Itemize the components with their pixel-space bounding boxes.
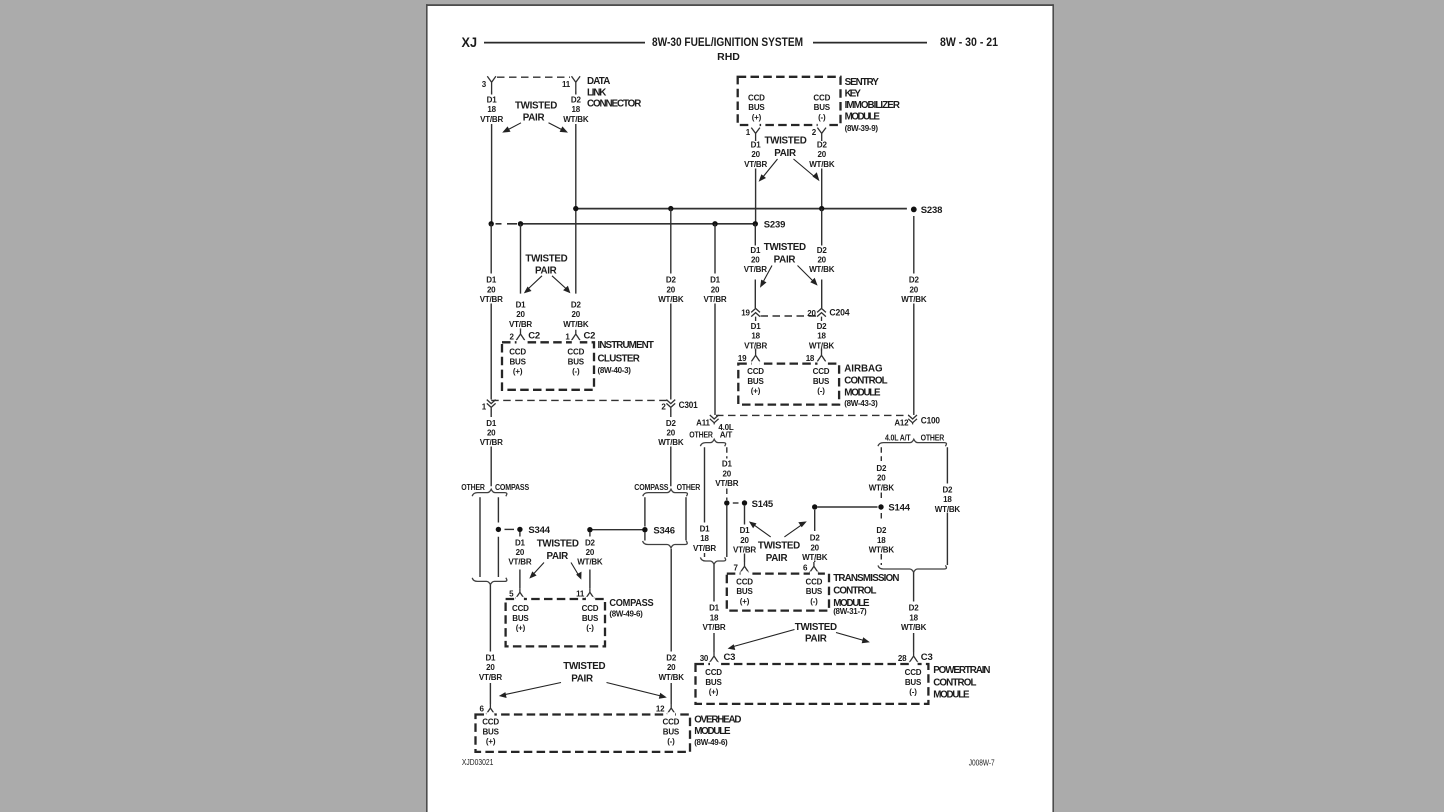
twisted pair arrow left (DLC) [507, 123, 521, 130]
junction dot D1/DLC [489, 221, 494, 226]
twisted pair arrow left (C3) [734, 630, 795, 647]
wire D1 20 VT/BR to C2 pin 2 [520, 224, 522, 330]
twisted pair arrow left (TCM) up [754, 525, 771, 537]
junction dot D2/SKIM branch [819, 206, 824, 211]
wire D2 18 WT/BK from merge to C3 pin 28 [913, 573, 915, 653]
svg-text:1: 1 [565, 332, 570, 341]
svg-text:2: 2 [510, 332, 515, 341]
C204 pin 20 chevron [817, 308, 826, 321]
wire D2 18 WT/BK from C204-20 to airbag pin 18 [821, 349, 823, 352]
C3 pin 28 connector [909, 652, 917, 662]
twisted pair arrow right (DLC) [549, 123, 564, 130]
svg-text:18: 18 [806, 354, 815, 363]
dash gaps at pin entries [517, 340, 580, 344]
svg-text:COMPASS: COMPASS [634, 483, 669, 492]
junction dot D1/C2 branch [518, 221, 523, 226]
splice S344 dot on branch [496, 527, 501, 532]
svg-text:XJD03021: XJD03021 [462, 758, 494, 767]
bus wire lower (D1) [496, 223, 756, 225]
module box: instrument cluster [502, 342, 594, 390]
label D1 20 VT/BR (above C301-1) [478, 274, 505, 305]
module box: compass [506, 599, 605, 646]
split brace under A12 [878, 439, 946, 446]
svg-text:5: 5 [509, 589, 514, 598]
wire D1 20 VT/BR from S344 to compass pin 5 [519, 532, 521, 588]
svg-text:(8W-49-6): (8W-49-6) [694, 738, 728, 747]
junction dot D2/C301 branch [668, 206, 673, 211]
module box: transmission control module [727, 574, 829, 611]
svg-text:OTHER: OTHER [689, 431, 713, 440]
splice S346 dot right [642, 527, 647, 532]
svg-text:12: 12 [656, 705, 665, 714]
svg-text:7: 7 [733, 563, 738, 572]
splice S344 dot [517, 527, 522, 532]
svg-text:19: 19 [738, 354, 747, 363]
svg-text:(8W-43-3): (8W-43-3) [844, 399, 878, 408]
overhead pin 12 connector [667, 704, 675, 714]
svg-text:A11: A11 [696, 418, 710, 427]
svg-text:2: 2 [661, 402, 666, 411]
page border top [426, 4, 1053, 6]
compass pin 11 connector [586, 588, 594, 598]
svg-text:(8W-31-7): (8W-31-7) [833, 607, 867, 616]
wire D1 20 VT/BR from merge to overhead pin 6 [489, 585, 491, 704]
twisted pair arrow right (S239) [798, 266, 814, 282]
svg-text:C301: C301 [679, 400, 699, 411]
svg-text:RHD: RHD [717, 51, 740, 63]
splice S238 dot [911, 207, 917, 213]
twisted pair arrow right (compass) [571, 563, 579, 576]
airbag pin 18 connector [817, 351, 825, 362]
DLC pin 3 connector Y [487, 76, 496, 91]
page border left [426, 4, 428, 812]
splice S346 horizontal wire [590, 529, 645, 531]
svg-text:C100: C100 [921, 415, 940, 426]
wire D1 20 VT/BR from SKIM pin 1 to S239 [755, 140, 757, 224]
svg-text:C3: C3 [921, 652, 933, 663]
twisted pair arrow right (C3) [836, 633, 864, 641]
twisted pair arrow right (TCM) up [784, 525, 802, 537]
wire D2 20 WT/BK from SKIM pin 2 to bus [821, 140, 823, 209]
svg-text:19: 19 [741, 308, 750, 317]
merge brace above C3-30 wire [700, 557, 725, 564]
splice S344 link dash [505, 528, 515, 530]
splice S144 horizontal wire [818, 506, 878, 508]
splice S346 dot left [587, 527, 592, 532]
compass pin 5 connector [516, 588, 524, 598]
wire D1 20 VT/BR from S239 to C204 pin 19 [754, 224, 756, 308]
wire S346 compass branch (left) [644, 497, 646, 540]
splice S144 dot left [812, 504, 817, 509]
wire D1 18 VT/BR from merge to C3 pin 30 [713, 565, 715, 653]
label D2 20 WT/BK (above A12) [900, 274, 928, 305]
wire D2 20 WT/BK from S144 to TCM pin 6 [814, 510, 816, 562]
svg-text:6: 6 [480, 705, 485, 714]
svg-text:S346: S346 [653, 525, 674, 536]
wire D2 20 WT/BK from S346 merge to overhead pin 12 [670, 549, 672, 704]
svg-text:S144: S144 [888, 503, 910, 514]
TCM pin 7 connector [740, 562, 748, 573]
svg-text:C3: C3 [724, 652, 736, 663]
svg-text:S238: S238 [921, 205, 942, 216]
wire A12 4.0L A/T branch (dashed) to S144 [880, 447, 882, 501]
dash gaps at pin entries [486, 712, 675, 716]
twisted pair arrow left (SKIM) [763, 159, 778, 178]
splice S145 dot on branch [724, 500, 729, 505]
C100 dashed connector line [716, 414, 909, 416]
module box: airbag control module [738, 364, 839, 405]
wire D2 20 WT/BK from S238 to C100 pin A12 [913, 216, 915, 415]
wire D2 20 WT/BK from bus to C204 pin 20 [821, 209, 823, 308]
wire D1 20 VT/BR from bus to C100 pin A11 [714, 224, 716, 415]
data link connector dashed edge [497, 76, 570, 78]
wire OTHER branch (left) [479, 497, 481, 577]
svg-text:OTHER: OTHER [677, 483, 701, 492]
dash gaps at pin entries [752, 123, 826, 127]
dash gaps at pin entries [710, 662, 918, 666]
wire D2 20 WT/BK from C301-2 to split [670, 409, 672, 486]
dash gaps at pin entries [516, 597, 594, 601]
svg-text:30: 30 [700, 654, 709, 663]
airbag pin 19 connector [751, 351, 759, 362]
split brace under C301-1 wire [472, 489, 507, 496]
svg-text:COMPASS: COMPASS [495, 483, 530, 492]
wire D1 20 VT/BR from bus to C301 pin 1 [490, 224, 492, 400]
twisted pair arrow right (SKIM) [794, 159, 816, 178]
svg-text:J008W-7: J008W-7 [969, 759, 995, 768]
wire A12 OTHER branch (right) [946, 447, 948, 565]
C204 pin 19 chevron [751, 308, 760, 321]
wire A11 4.0L A/T branch (dashed) to S145 [726, 447, 728, 500]
wire A11 a/t branch below S145 [726, 506, 728, 557]
svg-text:C2: C2 [584, 331, 596, 342]
C3 pin 30 connector [710, 652, 718, 662]
split brace under A11 [700, 439, 725, 446]
svg-text:C2: C2 [528, 331, 540, 342]
svg-text:8W - 30 - 21: 8W - 30 - 21 [940, 37, 999, 49]
label D2 20 WT/BK (above C301-2) [657, 274, 685, 305]
svg-text:OTHER: OTHER [921, 434, 945, 443]
SKIM pin 1 connector Y [751, 128, 760, 140]
C2 pin 2 connector [516, 330, 524, 340]
wire A12 a/t branch below S144 (dashed) [880, 513, 882, 565]
header rule right [813, 42, 927, 44]
header rule left [484, 42, 645, 44]
module box: overhead module [476, 715, 691, 752]
merge brace below S346 [643, 541, 688, 548]
split brace under C301-2 wire [643, 489, 688, 496]
junction dot D1/C100 branch [712, 221, 717, 226]
svg-text:4.0LA/T: 4.0LA/T [718, 423, 734, 440]
junction dot D2/DLC [573, 206, 578, 211]
wire D1 18 VT/BR from C204-19 to airbag pin 19 [755, 349, 757, 352]
wire D2 20 WT/BK from bus to C301 pin 2 [670, 209, 672, 400]
C301 dashed connector line [491, 399, 671, 401]
splice S239 dot [753, 221, 758, 226]
C301 pin 2 chevron [666, 400, 675, 409]
splice S145 dot [742, 500, 747, 505]
DLC pin 11 connector Y [572, 76, 581, 91]
wire COMPASS branch (right) to S344 [497, 497, 499, 577]
C100 pin A11 chevron [710, 415, 719, 424]
wire D2 20 WT/BK from S346 to compass pin 11 [589, 532, 591, 588]
label D1 20 VT/BR (above A11) [702, 274, 729, 305]
svg-text:6: 6 [803, 563, 808, 572]
svg-text:A12: A12 [894, 418, 909, 427]
white page [428, 6, 1053, 812]
svg-text:28: 28 [898, 654, 907, 663]
module box: powertrain control module [696, 664, 929, 704]
wire D1 20 VT/BR from S145 to TCM pin 7 [744, 506, 746, 562]
svg-text:20: 20 [807, 309, 816, 318]
merge brace above overhead wire [472, 578, 507, 585]
svg-text:4.0L A/T: 4.0L A/T [885, 434, 911, 443]
svg-text:(8W-40-3): (8W-40-3) [598, 366, 632, 375]
svg-text:S239: S239 [764, 219, 785, 230]
svg-text:S344: S344 [528, 525, 550, 536]
svg-text:(8W-39-9): (8W-39-9) [845, 124, 879, 133]
svg-text:XJ: XJ [462, 35, 478, 50]
wire D2 18 WT/BK from DLC pin 11 down through bus to C2 [575, 92, 577, 294]
splice S145 link dash [733, 502, 739, 504]
wire D1 18 VT/BR from DLC pin 3 down to bus [491, 92, 493, 224]
page border right [1052, 4, 1054, 812]
wire S346 other branch (right) [685, 497, 687, 540]
twisted pair arrow left (IC) [528, 276, 542, 289]
SKIM pin 2 connector Y [817, 128, 826, 140]
wire D1 20 VT/BR from C301-1 to split [490, 409, 492, 486]
twisted pair arrow right (IC) [552, 276, 567, 289]
twisted pair arrow left (compass) [533, 563, 544, 575]
C100 pin A12 chevron [908, 415, 917, 424]
bus wire upper (D2) [576, 208, 907, 210]
C301 pin 1 chevron [487, 400, 496, 409]
dash gaps at pin entries [741, 571, 818, 575]
svg-text:C204: C204 [829, 308, 850, 319]
svg-text:11: 11 [576, 589, 585, 598]
twisted pair arrow left (S239) [763, 266, 773, 284]
twisted pair arrow right (overhead) [607, 683, 662, 697]
TCM pin 6 connector [810, 562, 818, 573]
svg-text:(8W-49-6): (8W-49-6) [609, 610, 643, 619]
wire A11 OTHER branch (left) [704, 447, 706, 557]
svg-text:COMPASS: COMPASS [609, 598, 654, 609]
merge brace above C3-28 wire [878, 565, 946, 572]
twisted pair arrow left (overhead) [505, 683, 562, 695]
overhead pin 6 connector [486, 704, 494, 714]
svg-text:8W-30 FUEL/IGNITION SYSTEM: 8W-30 FUEL/IGNITION SYSTEM [652, 37, 803, 49]
dash gaps at pin entries [752, 361, 826, 365]
svg-text:11: 11 [562, 80, 571, 89]
svg-text:OTHER: OTHER [461, 483, 485, 492]
module box: sentry key immobilizer [738, 77, 841, 125]
C2 pin 1 connector [572, 330, 580, 340]
splice S144 dot on branch [878, 504, 883, 509]
svg-text:S145: S145 [752, 499, 774, 510]
C204 dashed connector line [761, 315, 818, 317]
